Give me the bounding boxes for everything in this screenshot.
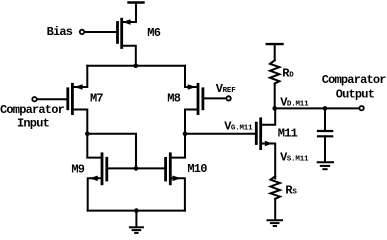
svg-text:M11: M11: [278, 127, 298, 141]
svg-text:S.M11: S.M11: [287, 155, 309, 163]
svg-text:Input: Input: [17, 117, 50, 131]
svg-text:Output: Output: [336, 88, 375, 102]
svg-text:S: S: [292, 189, 297, 197]
svg-text:M9: M9: [71, 163, 84, 177]
svg-text:M7: M7: [90, 92, 103, 106]
svg-text:M8: M8: [167, 92, 180, 106]
svg-text:REF: REF: [223, 87, 237, 95]
svg-text:G.M11: G.M11: [231, 124, 253, 132]
svg-text:M10: M10: [187, 162, 207, 176]
svg-text:D: D: [289, 71, 294, 79]
svg-text:M6: M6: [147, 26, 160, 40]
svg-text:Bias: Bias: [47, 25, 73, 39]
svg-text:Comparator: Comparator: [322, 73, 387, 87]
svg-text:D.M11: D.M11: [287, 101, 309, 109]
svg-text:Comparator: Comparator: [0, 103, 65, 117]
